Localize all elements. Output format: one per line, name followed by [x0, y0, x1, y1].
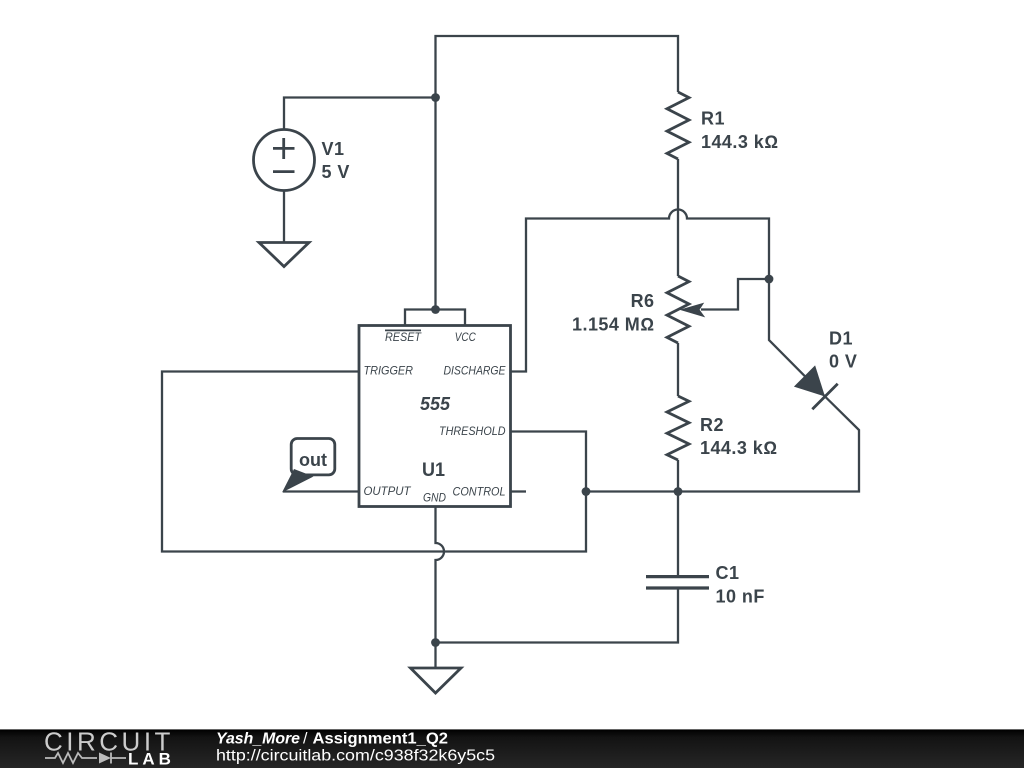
label V1 value	[322, 139, 350, 182]
svg-text:10 nF: 10 nF	[716, 587, 765, 607]
wire R2 bottom to node	[677, 460, 679, 492]
svg-text:LAB: LAB	[128, 750, 175, 768]
svg-text:144.3 kΩ: 144.3 kΩ	[700, 438, 777, 458]
label R6 value	[572, 291, 654, 335]
ground symbol bottom	[411, 668, 462, 693]
flag out bubble	[282, 439, 335, 493]
wire top rail V+ from IC to R1	[436, 36, 679, 310]
wire C1 top lead	[677, 492, 679, 576]
svg-text:D1: D1	[829, 329, 853, 349]
wire V1 to top rail	[284, 98, 436, 130]
node junction vcc bridge	[431, 305, 440, 314]
logo squiggle resistor diode	[45, 753, 126, 764]
wire R1 bottom through hop to R6 top	[677, 159, 679, 276]
node junction V1/top rail	[431, 93, 440, 102]
wire output pin	[283, 490, 359, 492]
label C1 value	[716, 563, 765, 607]
label D1 value	[829, 329, 857, 372]
wire V1 to ground	[283, 191, 285, 243]
node junction wiper/D1	[765, 275, 774, 284]
svg-text:0 V: 0 V	[829, 352, 857, 372]
svg-text:GND: GND	[423, 491, 446, 505]
diode D1	[794, 365, 838, 409]
svg-text:R6: R6	[631, 291, 655, 311]
svg-text:Yash_More: Yash_More	[216, 731, 300, 748]
svg-text:VCC: VCC	[455, 330, 476, 344]
voltage source V1	[254, 130, 315, 191]
capacitor C1	[646, 577, 709, 588]
ground symbol at V1	[259, 243, 309, 267]
wire control stub	[511, 490, 527, 492]
wire reset/vcc bridge	[405, 310, 465, 326]
svg-text:R2: R2	[700, 415, 724, 435]
resistor R1	[667, 92, 689, 159]
svg-text:1.154 MΩ: 1.154 MΩ	[572, 315, 654, 335]
wire gnd pin with hop over feedback	[436, 507, 445, 669]
svg-text:OUTPUT: OUTPUT	[364, 484, 413, 498]
potentiometer R6 body	[667, 276, 689, 343]
label R2 value	[700, 415, 777, 458]
svg-text:555: 555	[420, 394, 451, 414]
wire C1 bottom to ground rail	[436, 590, 679, 643]
svg-text:/: /	[303, 731, 308, 748]
wire discharge horizontal with hop over vertical	[511, 210, 770, 372]
potentiometer R6 wiper arrow	[680, 279, 770, 317]
footer title text	[216, 731, 448, 748]
resistor R2	[667, 396, 689, 460]
node junction R2/C1	[674, 487, 683, 496]
svg-text:Assignment1_Q2: Assignment1_Q2	[313, 731, 449, 748]
wire D1 branch from wiper node	[586, 279, 859, 492]
svg-text:http://circuitlab.com/c938f32k: http://circuitlab.com/c938f32k6y5c5	[216, 748, 495, 765]
svg-text:5 V: 5 V	[322, 162, 350, 182]
svg-text:RESET: RESET	[385, 330, 422, 344]
svg-text:R1: R1	[701, 109, 725, 129]
svg-text:out: out	[299, 450, 327, 470]
pin RESET	[385, 330, 422, 344]
wire trigger-threshold feedback	[162, 372, 586, 552]
svg-text:144.3 kΩ: 144.3 kΩ	[701, 132, 778, 152]
IC U1 555 timer box	[359, 326, 511, 507]
svg-text:TRIGGER: TRIGGER	[364, 364, 414, 378]
node junction ground rail	[431, 638, 440, 647]
wire R6 bottom to R2 top	[677, 343, 679, 396]
svg-text:THRESHOLD: THRESHOLD	[439, 424, 506, 438]
svg-text:V1: V1	[322, 139, 345, 159]
svg-text:CONTROL: CONTROL	[453, 485, 506, 499]
node junction threshold net	[582, 487, 591, 496]
footer bar	[0, 729, 1024, 768]
svg-text:C1: C1	[716, 563, 740, 583]
label R1 value	[701, 109, 778, 153]
svg-text:DISCHARGE: DISCHARGE	[444, 364, 507, 378]
svg-text:U1: U1	[422, 459, 445, 481]
